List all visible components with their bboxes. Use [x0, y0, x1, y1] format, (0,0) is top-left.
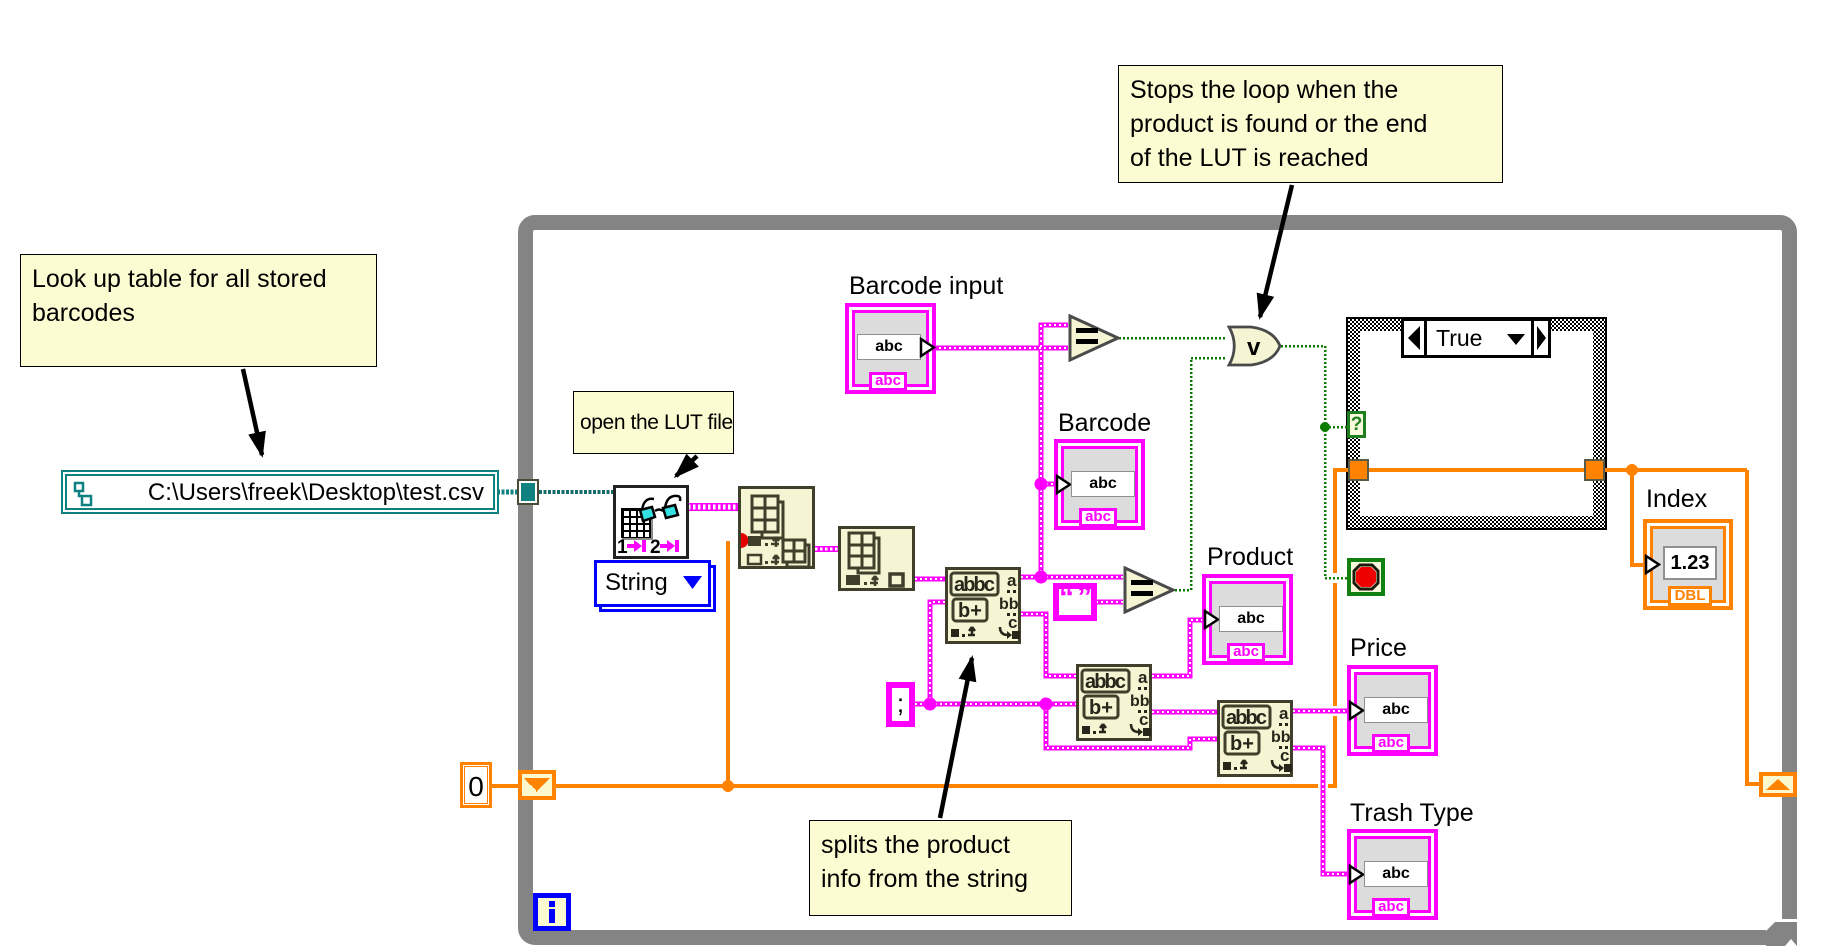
comment: open the LUT file — [573, 391, 734, 454]
match pattern icon 1 — [945, 567, 1021, 644]
case structure — [1346, 317, 1607, 530]
path constant C:\Users\freek\Desktop\test.csv — [61, 470, 499, 514]
Product string indicator — [1202, 574, 1293, 665]
match pattern icon 2 — [1076, 664, 1152, 741]
wire: tunnel to Read-Spreadsheet VI (dark teal dashed) — [539, 490, 613, 494]
semicolon string constant — [886, 682, 915, 727]
label Index — [1646, 485, 1707, 514]
equals node 1 — [1068, 314, 1120, 362]
label Trash Type — [1350, 799, 1474, 828]
wire: down to right shift register — [1747, 470, 1760, 784]
stop button — [1347, 558, 1385, 596]
OR gate — [1227, 325, 1282, 367]
match pattern icon 3 — [1217, 700, 1293, 777]
wire: equals1 out to OR gate — [1119, 337, 1227, 340]
wire: IndexArray1 out to IndexArray2 — [815, 546, 838, 552]
1->| 2->| — [617, 537, 679, 558]
comment: splits the product — [809, 820, 1072, 916]
wire: magenta string wires — [688, 503, 738, 511]
0 numeric constant — [460, 762, 492, 808]
wire: 0 constant to left shift register — [492, 784, 518, 788]
empty string constant — [1053, 583, 1097, 621]
case selector label — [1401, 318, 1551, 358]
tunnel: path into while loop — [517, 479, 539, 505]
Trash Type string indicator — [1347, 829, 1438, 920]
glasses — [640, 496, 680, 521]
arrow: splits product comment to match1 — [940, 658, 972, 818]
Read Delimited Spreadsheet VI icon U1 — [613, 485, 689, 559]
while loop border — [518, 215, 1797, 945]
arrow: open LUT comment to VI — [676, 456, 697, 476]
wire: VI 2D-array out to IndexArray1 — [688, 503, 738, 511]
Index Array icon 2 — [838, 526, 915, 591]
wire: branch down to Index indicator — [1632, 470, 1649, 565]
wire: branch up to IndexArray1 index input — [726, 541, 730, 784]
wire: match3 c-output down to Trash Type indicator — [915, 325, 1349, 874]
while loop corner patch for arrow — [1780, 919, 1821, 952]
tunnel: case left (orange) — [1348, 459, 1369, 481]
wire: OR output to case selector and stop button — [1281, 346, 1347, 578]
arrow: stops loop comment to OR gate — [1260, 185, 1292, 317]
wire: green boolean wires — [1119, 338, 1347, 590]
comment: stops the loop — [1118, 65, 1503, 183]
label Barcode — [1058, 409, 1151, 438]
Index Array icon 1 — [738, 486, 815, 569]
label Barcode input — [849, 272, 1003, 301]
wire: equals2 out up to OR gate lower input — [1175, 358, 1227, 590]
? case selector terminal — [1347, 411, 1366, 438]
comment: look up table — [20, 254, 377, 367]
wire: inside case tunnel to tunnel — [1369, 468, 1584, 472]
Price string indicator — [1347, 665, 1438, 756]
Barcode input string control — [845, 303, 936, 394]
wire crossing gaps — [1318, 573, 1340, 791]
wire: orange numeric wires — [492, 470, 1760, 788]
arrow: lookup table comment to path constant — [243, 369, 262, 455]
Barcode string indicator — [1054, 439, 1145, 530]
i iteration terminal — [533, 893, 571, 931]
wire: path constant to tunnel (teal dashed) — [497, 490, 517, 495]
wire: up to case left tunnel — [1335, 470, 1348, 788]
equals node 2 — [1123, 566, 1175, 614]
shift register left (down arrow) — [518, 770, 556, 800]
label Product — [1207, 543, 1293, 572]
tunnel: case right (orange) — [1584, 459, 1605, 481]
wire: shift register to x=1336 — [556, 784, 1337, 788]
while loop flow arrow — [1764, 920, 1800, 948]
orange junction dots — [722, 780, 734, 792]
shared defs — [0, 0, 2, 2]
green junction dot — [1320, 422, 1330, 432]
wire: branch to case ? terminal — [1325, 426, 1347, 429]
Index numeric indicator DBL — [1643, 519, 1733, 610]
shift register right (up arrow) — [1759, 772, 1797, 797]
grid — [621, 508, 653, 540]
String dropdown constant — [599, 565, 716, 612]
wire: case right tunnel onward — [1605, 468, 1747, 472]
label Price — [1350, 634, 1407, 663]
magenta junction dots — [924, 478, 1053, 711]
